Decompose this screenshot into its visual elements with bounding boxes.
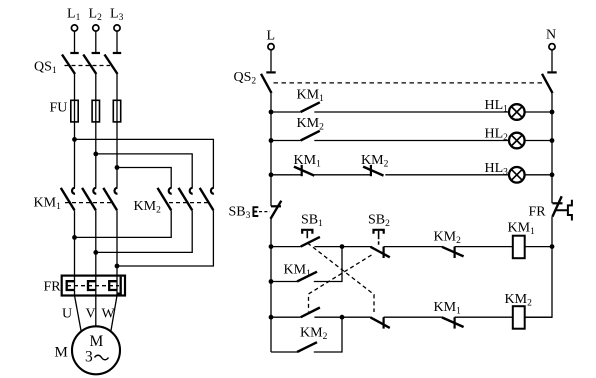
pushbutton SB2 NC blade (rung4) bbox=[371, 247, 390, 257]
svg-text:M: M bbox=[55, 345, 68, 361]
svg-text:U: U bbox=[62, 307, 72, 322]
wire rung2 to lamp bbox=[314, 140, 509, 142]
pushbutton SB1 NO blade bbox=[301, 237, 320, 247]
switch QS2 pole L contact bar bbox=[266, 71, 275, 73]
contactor KM1 pole 3 blade bbox=[103, 188, 117, 210]
svg-text:KM2: KM2 bbox=[361, 153, 389, 170]
pushbutton SB1 mechanical link (dashed) bbox=[308, 243, 375, 312]
wire left bus lower bbox=[270, 219, 272, 352]
wire left bus upper bbox=[270, 93, 272, 206]
node junction phase V bbox=[93, 250, 98, 255]
thermal relay FR heater element 2 bbox=[88, 281, 96, 290]
svg-text:L2: L2 bbox=[89, 7, 103, 24]
node rung2 left bbox=[269, 138, 274, 143]
fuse FU phase 1 bbox=[71, 100, 78, 122]
wire L drop bbox=[270, 50, 272, 72]
wire latch KM2 right + riser bbox=[314, 317, 342, 352]
pushbutton SB3 head (E) bbox=[253, 206, 258, 217]
contactor KM1 linkage (dashed) bbox=[65, 202, 112, 204]
contactor KM2 linkage (dashed) bbox=[169, 202, 209, 204]
wire FR to motor U bbox=[75, 296, 82, 331]
switch QS1 pole 1 contact bar bbox=[70, 52, 78, 54]
svg-text:L3: L3 bbox=[110, 7, 124, 24]
contactor KM2 pole 3 fixed-contact hook bbox=[211, 188, 214, 194]
wire lamp HL1 to right bus bbox=[524, 111, 552, 113]
thermal relay FR heater element 1 bbox=[67, 281, 75, 290]
wire rung4 left bbox=[271, 246, 301, 248]
contactor KM2 pole 3 blade bbox=[200, 188, 214, 210]
contactor KM1 pole 1 fixed-contact hook bbox=[72, 188, 75, 194]
wire FR to motor W bbox=[111, 296, 117, 331]
svg-text:KM1: KM1 bbox=[297, 88, 325, 105]
contact FR NC bar bbox=[552, 202, 562, 204]
thermal relay FR heater box bbox=[62, 276, 125, 296]
node junction L2/KM2 bbox=[93, 152, 98, 157]
node L2 terminal bbox=[93, 25, 99, 31]
thermal relay FR heater element 3 bbox=[109, 281, 117, 290]
wire KM1 pole3 output down through FR bbox=[116, 210, 118, 295]
thermal relay FR linkage (dashed) bbox=[67, 285, 119, 287]
node junction phase W bbox=[115, 264, 120, 269]
pushbutton SB2 NC bar (rung4) bbox=[383, 247, 385, 258]
wire rung2 left bbox=[271, 140, 301, 142]
svg-text:KM1: KM1 bbox=[284, 263, 312, 280]
wire QS1 pole1 to fuse bbox=[74, 74, 76, 187]
node L1 terminal bbox=[71, 25, 77, 31]
contact KM1 NO blade (latch) bbox=[297, 272, 317, 282]
node rung4 right bbox=[550, 244, 555, 249]
svg-text:KM2: KM2 bbox=[297, 116, 325, 133]
svg-text:FR: FR bbox=[44, 280, 62, 295]
svg-text:FR: FR bbox=[529, 205, 547, 220]
switch QS1 pole 2 contact bar bbox=[92, 52, 100, 54]
wire lamp HL2 to right bus bbox=[524, 140, 552, 142]
fuse FU phase 3 bbox=[113, 100, 120, 122]
node N terminal bbox=[549, 44, 555, 50]
wire QS1 pole2 to fuse bbox=[95, 74, 97, 187]
contact KM1 NC blade (rung3) bbox=[294, 167, 314, 176]
svg-text:V: V bbox=[86, 307, 96, 322]
switch QS1 pole 3 contact bar bbox=[113, 52, 121, 54]
wire KM2 pole3 output bbox=[117, 210, 213, 266]
node junction L1/KM2 bbox=[72, 137, 77, 142]
wire QS1 pole3 to fuse bbox=[116, 74, 118, 187]
contact SB3 NC bar bbox=[271, 205, 281, 207]
contactor KM1 pole 2 fixed-contact hook bbox=[93, 188, 96, 194]
svg-text:SB3: SB3 bbox=[229, 205, 251, 222]
pushbutton SB2 NO blade (rung5) bbox=[301, 308, 320, 318]
pushbutton SB3 link (dashed) bbox=[259, 211, 270, 213]
wire latch KM2 left bbox=[271, 351, 297, 353]
lamp HL1 bbox=[509, 104, 525, 120]
contact KM1 NC bar (rung5) bbox=[454, 317, 456, 328]
wire rung5 to coil bbox=[455, 316, 513, 318]
switch QS1 linkage (dashed) bbox=[65, 65, 111, 67]
switch QS2 pole L blade bbox=[261, 74, 272, 93]
wire L3 drop to QS1 bbox=[116, 31, 118, 52]
svg-text:KM2: KM2 bbox=[434, 230, 462, 247]
wire rung1 left bbox=[271, 111, 301, 113]
contactor KM1 pole 2 blade bbox=[82, 188, 96, 210]
svg-text:HL2: HL2 bbox=[485, 127, 509, 144]
contact KM1 NC blade (rung5) bbox=[442, 317, 464, 327]
wire N drop bbox=[551, 50, 553, 72]
svg-text:SB1: SB1 bbox=[301, 213, 323, 230]
node rung4 / latch junction bbox=[340, 244, 345, 249]
lamp HL2 bbox=[509, 133, 525, 149]
thermal relay FR heater element 3 jog bbox=[117, 277, 121, 294]
wire KM1 pole2 output down through FR bbox=[95, 210, 97, 295]
svg-text:L1: L1 bbox=[67, 7, 81, 24]
svg-text:KM2: KM2 bbox=[300, 325, 328, 342]
coil KM2 bbox=[513, 306, 525, 329]
node rung2 right bbox=[550, 138, 555, 143]
contact KM2 NC bar (rung4) bbox=[454, 247, 456, 258]
contact FR NC blade bbox=[552, 196, 561, 217]
fuse FU phase 2 bbox=[92, 100, 99, 122]
node rung5 left bbox=[269, 315, 274, 320]
wire L2 drop to QS1 bbox=[95, 31, 97, 52]
node rung3 right bbox=[550, 172, 555, 177]
thermal relay FR trip device bbox=[556, 200, 572, 221]
contactor KM1 pole 3 fixed-contact hook bbox=[115, 188, 118, 194]
svg-text:HL1: HL1 bbox=[485, 98, 509, 115]
pushbutton SB1 head bbox=[302, 230, 312, 234]
pushbutton SB1 NC blade (rung5) bbox=[371, 317, 390, 328]
wire rung4 to coil bbox=[455, 246, 513, 248]
wire rung5 left bbox=[271, 316, 301, 318]
node rung4 left bbox=[269, 244, 274, 249]
contact KM2 NO blade (latch) bbox=[297, 342, 317, 352]
lamp HL3 bbox=[509, 167, 525, 183]
motor M 3-phase circle bbox=[72, 326, 120, 374]
svg-text:KM2: KM2 bbox=[134, 199, 162, 216]
svg-text:W: W bbox=[102, 307, 116, 322]
node junction L3/KM2 bbox=[115, 165, 120, 170]
wire L1 drop to QS1 bbox=[74, 31, 76, 52]
wire FR to motor V bbox=[95, 296, 97, 327]
wire latch KM1 left bbox=[271, 281, 297, 283]
contact KM2 NC bar (rung3) bbox=[370, 165, 372, 176]
switch QS2 pole N blade bbox=[542, 74, 553, 93]
wire KM2 pole1 output bbox=[75, 210, 172, 237]
wire KM1 pole1 output down through FR bbox=[74, 210, 76, 295]
switch QS2 pole N contact bar bbox=[547, 71, 556, 73]
pushbutton SB2 mechanical link (dashed) bbox=[309, 255, 372, 312]
wire rung1 to lamp bbox=[314, 111, 509, 113]
contactor KM2 pole 2 blade bbox=[179, 188, 193, 210]
contactor KM1 pole 1 blade bbox=[61, 188, 75, 210]
node rung5 / latch junction bbox=[340, 315, 345, 320]
wire rung5 mid2 bbox=[384, 316, 442, 318]
svg-text:HL3: HL3 bbox=[485, 161, 509, 178]
svg-text:FU: FU bbox=[50, 101, 68, 116]
wire rung3 to lamp bbox=[385, 174, 509, 176]
wire L3 branch to KM2 pole1 bbox=[117, 168, 171, 188]
wire lamp HL3 to right bus bbox=[524, 174, 552, 176]
svg-text:3: 3 bbox=[85, 349, 93, 366]
contact KM1 NO blade (rung1) bbox=[301, 102, 320, 112]
svg-text:QS2: QS2 bbox=[234, 70, 257, 87]
wire right bus upper bbox=[551, 93, 553, 203]
node rung1 left bbox=[269, 110, 274, 115]
wire L2 branch to KM2 pole2 bbox=[96, 154, 192, 188]
wire L1 branch to KM2 pole3 bbox=[75, 139, 214, 187]
svg-text:KM1: KM1 bbox=[508, 221, 536, 238]
svg-text:KM2: KM2 bbox=[505, 292, 533, 309]
wire coil KM2 to right bus bbox=[525, 316, 552, 318]
wire rung3 left bbox=[271, 174, 301, 176]
contact KM2 NO blade (rung2) bbox=[301, 131, 320, 141]
node KM1 latch left bbox=[269, 279, 274, 284]
svg-text:KM1: KM1 bbox=[294, 153, 322, 170]
wire rung5 mid1 bbox=[314, 316, 371, 318]
contact KM2 NC blade (rung3) bbox=[363, 167, 383, 176]
wire right bus lower bbox=[525, 217, 552, 317]
wire rung3 middle bbox=[314, 174, 371, 176]
node rung1 right bbox=[550, 110, 555, 115]
contact SB3 NC blade bbox=[271, 201, 282, 219]
svg-text:KM1: KM1 bbox=[34, 196, 62, 213]
svg-text:SB2: SB2 bbox=[368, 213, 390, 230]
coil KM1 bbox=[513, 236, 525, 259]
node junction phase U bbox=[72, 235, 77, 240]
svg-text:QS1: QS1 bbox=[34, 60, 57, 77]
wire rung4 mid1 bbox=[314, 246, 371, 248]
switch QS1 pole 2 blade bbox=[83, 55, 96, 75]
contact KM1 NC bar (rung3) bbox=[301, 165, 303, 176]
pushbutton SB1 NC bar (rung5) bbox=[383, 317, 385, 328]
wire rung4 mid2 bbox=[384, 246, 442, 248]
wire KM2 pole2 output bbox=[96, 210, 192, 252]
node rung3 left bbox=[269, 172, 274, 177]
switch QS2 linkage (dashed) bbox=[274, 82, 546, 84]
switch QS1 pole 1 blade bbox=[62, 55, 75, 75]
svg-text:KM1: KM1 bbox=[434, 300, 462, 317]
svg-text:M: M bbox=[90, 333, 104, 350]
contactor KM2 pole 1 blade bbox=[158, 188, 172, 210]
pushbutton SB2 head bbox=[374, 230, 384, 234]
svg-text:L: L bbox=[267, 29, 276, 44]
svg-text:N: N bbox=[546, 28, 556, 43]
node L terminal bbox=[268, 44, 274, 50]
contact KM2 NC blade (rung4) bbox=[442, 247, 464, 257]
node L3 terminal bbox=[114, 25, 120, 31]
wire latch KM1 right + riser bbox=[314, 247, 342, 282]
wire coil KM1 to right bus bbox=[525, 246, 552, 248]
switch QS1 pole 3 blade bbox=[105, 55, 118, 75]
contactor KM2 pole 2 fixed-contact hook bbox=[190, 188, 193, 194]
contactor KM2 pole 1 fixed-contact hook bbox=[169, 188, 172, 194]
